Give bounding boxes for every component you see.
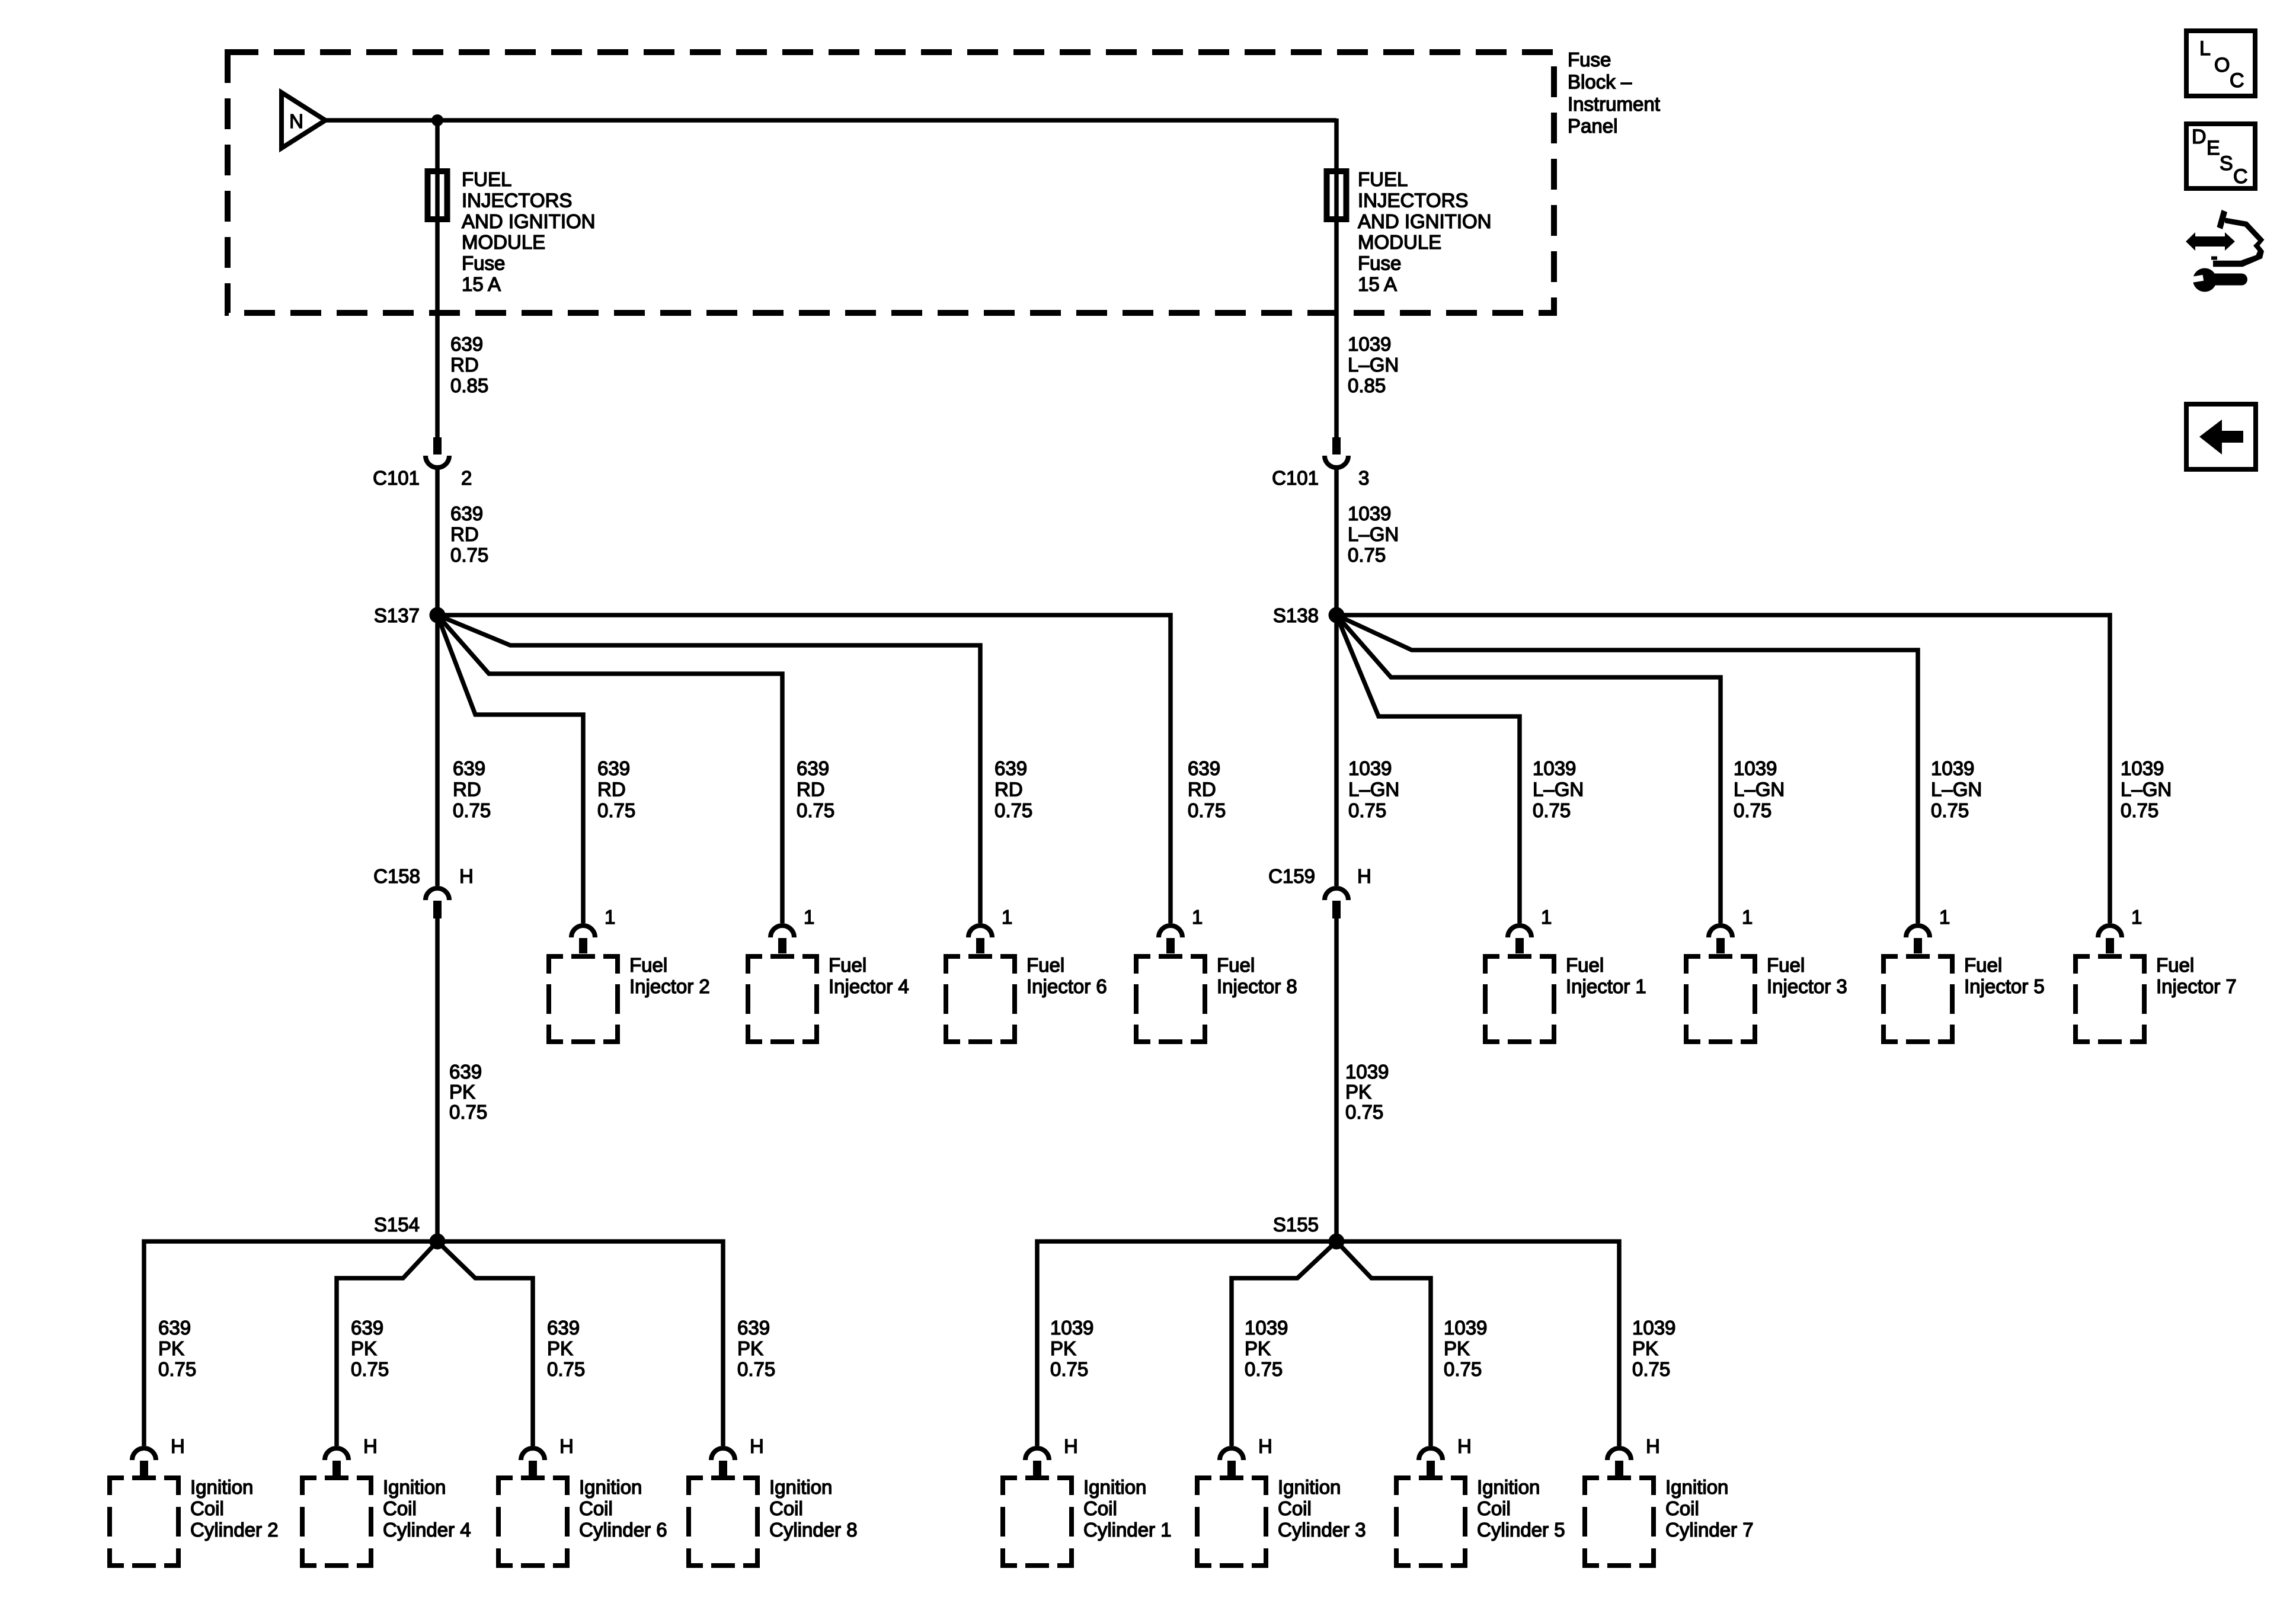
svg-text:RD: RD — [994, 778, 1023, 800]
svg-text:S137: S137 — [374, 604, 420, 626]
svg-text:0.85: 0.85 — [1348, 375, 1386, 396]
svg-text:1039: 1039 — [1345, 1061, 1389, 1083]
svg-text:639: 639 — [158, 1317, 191, 1339]
svg-text:PK: PK — [158, 1337, 184, 1359]
svg-text:0.75: 0.75 — [158, 1358, 196, 1380]
svg-text:O: O — [2214, 54, 2230, 76]
svg-text:Panel: Panel — [1568, 115, 1617, 137]
svg-text:1: 1 — [605, 906, 615, 928]
svg-text:1039: 1039 — [1931, 757, 1974, 779]
svg-text:639: 639 — [450, 502, 483, 524]
svg-text:RD: RD — [450, 354, 479, 376]
svg-text:Coil: Coil — [1278, 1497, 1312, 1519]
svg-text:0.75: 0.75 — [2121, 799, 2159, 821]
svg-text:639: 639 — [547, 1317, 580, 1339]
svg-text:C158: C158 — [373, 865, 420, 887]
svg-text:0.75: 0.75 — [994, 799, 1032, 821]
svg-text:AND IGNITION: AND IGNITION — [1358, 210, 1492, 232]
svg-text:C: C — [2230, 69, 2244, 92]
svg-text:Injector 4: Injector 4 — [829, 975, 909, 997]
svg-text:Fuse: Fuse — [1358, 252, 1401, 274]
svg-text:PK: PK — [1050, 1337, 1076, 1359]
svg-text:H: H — [559, 1435, 574, 1457]
svg-text:639: 639 — [1188, 757, 1220, 779]
svg-text:Coil: Coil — [190, 1497, 224, 1519]
svg-text:Ignition: Ignition — [190, 1476, 253, 1498]
svg-text:1039: 1039 — [1348, 757, 1392, 779]
svg-text:C: C — [2233, 165, 2248, 188]
svg-text:639: 639 — [597, 757, 630, 779]
svg-text:RD: RD — [450, 523, 479, 545]
svg-text:Cylinder 7: Cylinder 7 — [1665, 1519, 1754, 1541]
svg-text:PK: PK — [737, 1337, 763, 1359]
svg-text:1039: 1039 — [1050, 1317, 1093, 1339]
svg-text:0.75: 0.75 — [1050, 1358, 1088, 1380]
svg-text:PK: PK — [351, 1337, 377, 1359]
svg-text:RD: RD — [453, 778, 481, 800]
svg-text:Injector 5: Injector 5 — [1964, 975, 2045, 997]
svg-text:Fuel: Fuel — [1767, 954, 1805, 976]
svg-text:L–GN: L–GN — [1931, 778, 1982, 800]
svg-text:0.75: 0.75 — [1632, 1358, 1670, 1380]
svg-text:Cylinder 8: Cylinder 8 — [769, 1519, 858, 1541]
svg-text:15 A: 15 A — [462, 273, 501, 295]
svg-text:0.75: 0.75 — [1533, 799, 1571, 821]
svg-text:0.75: 0.75 — [1188, 799, 1226, 821]
svg-text:1: 1 — [1742, 906, 1753, 928]
svg-text:RD: RD — [597, 778, 626, 800]
svg-text:C101: C101 — [373, 467, 420, 489]
svg-text:PK: PK — [1444, 1337, 1470, 1359]
svg-text:Fuse: Fuse — [1568, 49, 1611, 71]
svg-text:Coil: Coil — [1665, 1497, 1699, 1519]
svg-text:Coil: Coil — [769, 1497, 803, 1519]
svg-text:H: H — [363, 1435, 378, 1457]
svg-text:0.85: 0.85 — [450, 375, 488, 396]
svg-text:D: D — [2192, 126, 2207, 148]
svg-text:Cylinder 4: Cylinder 4 — [383, 1519, 471, 1541]
svg-text:N: N — [289, 110, 303, 132]
svg-text:Coil: Coil — [1477, 1497, 1511, 1519]
svg-text:PK: PK — [547, 1337, 573, 1359]
svg-text:0.75: 0.75 — [450, 544, 488, 566]
svg-text:0.75: 0.75 — [797, 799, 834, 821]
svg-text:Ignition: Ignition — [1278, 1476, 1341, 1498]
svg-text:Ignition: Ignition — [579, 1476, 642, 1498]
svg-text:Cylinder 5: Cylinder 5 — [1477, 1519, 1565, 1541]
svg-text:L–GN: L–GN — [1734, 778, 1785, 800]
svg-text:1039: 1039 — [1245, 1317, 1288, 1339]
svg-text:Coil: Coil — [383, 1497, 417, 1519]
svg-text:H: H — [1646, 1435, 1660, 1457]
svg-text:639: 639 — [351, 1317, 383, 1339]
svg-text:0.75: 0.75 — [737, 1358, 775, 1380]
svg-text:L–GN: L–GN — [1533, 778, 1584, 800]
svg-text:L–GN: L–GN — [1348, 778, 1399, 800]
svg-text:1039: 1039 — [1533, 757, 1576, 779]
svg-text:Fuel: Fuel — [1566, 954, 1604, 976]
svg-text:S155: S155 — [1273, 1214, 1319, 1235]
svg-text:Coil: Coil — [1083, 1497, 1117, 1519]
svg-text:1039: 1039 — [1444, 1317, 1487, 1339]
svg-text:PK: PK — [1245, 1337, 1271, 1359]
svg-text:Injector 2: Injector 2 — [629, 975, 710, 997]
svg-text:L–GN: L–GN — [2121, 778, 2172, 800]
svg-text:H: H — [1064, 1435, 1078, 1457]
svg-text:INJECTORS: INJECTORS — [1358, 189, 1468, 211]
svg-text:C101: C101 — [1272, 467, 1319, 489]
svg-text:MODULE: MODULE — [462, 231, 545, 253]
svg-text:1039: 1039 — [1734, 757, 1777, 779]
svg-text:639: 639 — [450, 333, 483, 355]
svg-text:RD: RD — [1188, 778, 1216, 800]
svg-text:Injector 8: Injector 8 — [1217, 975, 1297, 997]
svg-text:639: 639 — [994, 757, 1027, 779]
svg-text:Injector 6: Injector 6 — [1027, 975, 1107, 997]
svg-text:Cylinder 2: Cylinder 2 — [190, 1519, 279, 1541]
svg-text:H: H — [1457, 1435, 1472, 1457]
svg-text:639: 639 — [797, 757, 829, 779]
svg-text:0.75: 0.75 — [1245, 1358, 1283, 1380]
svg-text:0.75: 0.75 — [1444, 1358, 1482, 1380]
svg-text:1: 1 — [804, 906, 814, 928]
svg-text:Ignition: Ignition — [1477, 1476, 1540, 1498]
svg-text:1039: 1039 — [1348, 333, 1391, 355]
svg-text:0.75: 0.75 — [1931, 799, 1969, 821]
svg-text:C159: C159 — [1268, 865, 1315, 887]
svg-text:E: E — [2207, 137, 2220, 159]
svg-text:AND IGNITION: AND IGNITION — [462, 210, 596, 232]
svg-text:L: L — [2199, 37, 2211, 60]
svg-text:1: 1 — [1002, 906, 1012, 928]
svg-text:S: S — [2220, 152, 2233, 175]
svg-text:PK: PK — [1632, 1337, 1658, 1359]
svg-text:L–GN: L–GN — [1348, 354, 1399, 376]
svg-text:1039: 1039 — [1632, 1317, 1675, 1339]
svg-text:0.75: 0.75 — [449, 1101, 487, 1123]
svg-text:H: H — [171, 1435, 185, 1457]
svg-text:Ignition: Ignition — [1665, 1476, 1728, 1498]
svg-text:Block –: Block – — [1568, 71, 1632, 92]
svg-text:Ignition: Ignition — [1083, 1476, 1146, 1498]
svg-text:0.75: 0.75 — [597, 799, 635, 821]
svg-text:Injector 3: Injector 3 — [1767, 975, 1847, 997]
svg-text:RD: RD — [797, 778, 825, 800]
svg-text:PK: PK — [1345, 1081, 1371, 1103]
svg-text:1: 1 — [1541, 906, 1552, 928]
svg-text:0.75: 0.75 — [1348, 544, 1386, 566]
svg-text:0.75: 0.75 — [1348, 799, 1386, 821]
svg-text:Fuel: Fuel — [1027, 954, 1064, 976]
svg-text:S154: S154 — [374, 1214, 420, 1235]
svg-text:Ignition: Ignition — [769, 1476, 832, 1498]
svg-text:1039: 1039 — [1348, 502, 1391, 524]
svg-text:2: 2 — [461, 467, 472, 489]
svg-text:1: 1 — [1192, 906, 1203, 928]
svg-text:0.75: 0.75 — [547, 1358, 585, 1380]
svg-text:Fuel: Fuel — [1964, 954, 2002, 976]
svg-text:H: H — [1258, 1435, 1272, 1457]
svg-text:639: 639 — [737, 1317, 770, 1339]
svg-text:Fuel: Fuel — [2156, 954, 2194, 976]
svg-text:Fuel: Fuel — [1217, 954, 1255, 976]
svg-text:Injector 1: Injector 1 — [1566, 975, 1646, 997]
svg-text:1: 1 — [2131, 906, 2142, 928]
svg-text:15 A: 15 A — [1358, 273, 1397, 295]
svg-text:S138: S138 — [1273, 604, 1319, 626]
svg-text:1039: 1039 — [2121, 757, 2164, 779]
svg-text:0.75: 0.75 — [453, 799, 491, 821]
svg-text:Fuel: Fuel — [629, 954, 667, 976]
svg-text:H: H — [1357, 865, 1371, 887]
svg-text:1: 1 — [1939, 906, 1950, 928]
svg-text:639: 639 — [449, 1061, 482, 1083]
svg-text:PK: PK — [449, 1081, 475, 1103]
svg-text:0.75: 0.75 — [351, 1358, 389, 1380]
svg-text:FUEL: FUEL — [1358, 168, 1408, 190]
svg-text:3: 3 — [1358, 467, 1369, 489]
svg-text:Instrument: Instrument — [1568, 93, 1660, 115]
svg-text:Coil: Coil — [579, 1497, 613, 1519]
svg-text:Fuse: Fuse — [462, 252, 505, 274]
svg-text:MODULE: MODULE — [1358, 231, 1441, 253]
svg-text:H: H — [750, 1435, 764, 1457]
svg-text:Cylinder 3: Cylinder 3 — [1278, 1519, 1366, 1541]
svg-text:Cylinder 1: Cylinder 1 — [1083, 1519, 1172, 1541]
svg-text:0.75: 0.75 — [1734, 799, 1771, 821]
svg-text:H: H — [459, 865, 474, 887]
svg-text:FUEL: FUEL — [462, 168, 511, 190]
svg-text:Fuel: Fuel — [829, 954, 866, 976]
svg-text:L–GN: L–GN — [1348, 523, 1399, 545]
svg-text:Injector 7: Injector 7 — [2156, 975, 2237, 997]
svg-text:Cylinder 6: Cylinder 6 — [579, 1519, 667, 1541]
svg-text:0.75: 0.75 — [1345, 1101, 1383, 1123]
svg-text:Ignition: Ignition — [383, 1476, 446, 1498]
svg-text:INJECTORS: INJECTORS — [462, 189, 572, 211]
svg-text:639: 639 — [453, 757, 485, 779]
